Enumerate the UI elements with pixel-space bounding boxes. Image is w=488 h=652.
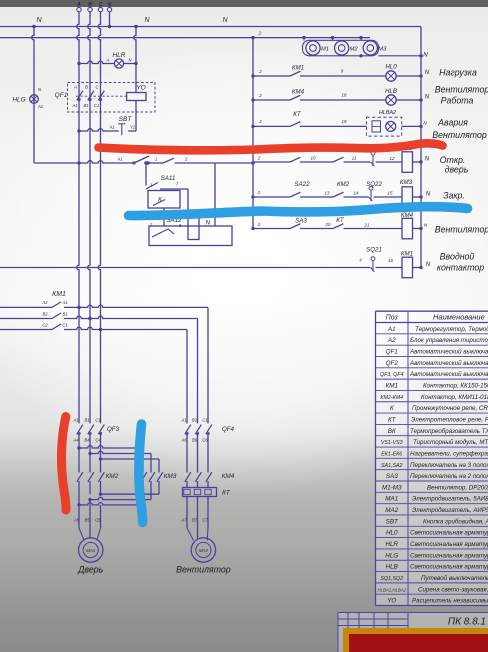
svg-text:A2: A2 — [41, 300, 48, 305]
svg-text:КМ1: КМ1 — [401, 251, 413, 258]
svg-text:C1: C1 — [95, 418, 100, 423]
svg-text:HLBA2: HLBA2 — [379, 110, 396, 116]
svg-text:SQ21: SQ21 — [366, 247, 382, 254]
svg-text:МА1: МА1 — [385, 496, 398, 503]
svg-text:Нагрузка: Нагрузка — [439, 68, 477, 78]
svg-text:МА2: МА2 — [199, 548, 209, 553]
svg-text:A: A — [106, 58, 110, 63]
svg-text:А1: А1 — [387, 326, 396, 333]
svg-text:N: N — [426, 191, 431, 198]
svg-text:C1: C1 — [202, 418, 207, 423]
svg-text:КМ4: КМ4 — [222, 473, 235, 480]
svg-text:Поз: Поз — [386, 315, 399, 322]
svg-text:A1: A1 — [180, 418, 186, 423]
svg-text:9: 9 — [341, 69, 344, 74]
svg-text:N: N — [425, 156, 430, 163]
svg-text:Переключатель на 3 положе: Переключатель на 3 положе — [410, 462, 488, 469]
svg-text:Путевой выключатель, ВП: Путевой выключатель, ВП — [421, 575, 488, 582]
svg-text:7: 7 — [176, 182, 179, 187]
svg-text:16: 16 — [388, 258, 393, 263]
svg-text:КМ1: КМ1 — [52, 291, 66, 298]
svg-text:A4: A4 — [72, 438, 79, 443]
svg-text:A7: A7 — [180, 518, 187, 523]
svg-text:18: 18 — [342, 93, 347, 98]
svg-text:15: 15 — [388, 191, 393, 196]
svg-text:N: N — [128, 58, 132, 63]
svg-text:N: N — [425, 69, 430, 76]
svg-text:контактор: контактор — [437, 263, 484, 273]
svg-text:Светосигнальная арматура зе: Светосигнальная арматура зе — [410, 552, 488, 559]
svg-text:Дверь: Дверь — [77, 565, 103, 575]
svg-text:МА2: МА2 — [385, 507, 398, 514]
svg-text:N: N — [423, 121, 427, 126]
svg-text:B6: B6 — [192, 438, 198, 443]
svg-text:КМ4: КМ4 — [401, 212, 414, 219]
svg-text:Блок управления тиристорами: Блок управления тиристорами — [410, 337, 488, 344]
svg-text:1: 1 — [150, 183, 152, 188]
svg-text:QF1: QF1 — [386, 349, 398, 356]
svg-text:ВК: ВК — [388, 428, 396, 435]
svg-text:Вентилятор: Вентилятор — [432, 130, 487, 140]
svg-text:SA1,SA2: SA1,SA2 — [381, 463, 403, 469]
svg-text:Расцепитель независимый: Расцепитель независимый — [412, 598, 488, 605]
svg-text:КМ2: КМ2 — [106, 473, 119, 480]
svg-text:КТ: КТ — [293, 111, 302, 118]
svg-text:HLB: HLB — [385, 88, 397, 95]
svg-text:КМ1: КМ1 — [386, 383, 398, 390]
svg-text:Переключатель на 2 положе: Переключатель на 2 положе — [410, 473, 488, 480]
svg-text:QF2: QF2 — [386, 360, 399, 367]
svg-text:2: 2 — [258, 31, 262, 36]
svg-text:A1: A1 — [37, 104, 43, 109]
svg-text:ПК 8.8.1: ПК 8.8.1 — [448, 617, 486, 628]
svg-text:HLB: HLB — [386, 564, 398, 571]
svg-text:Авария: Авария — [437, 118, 468, 128]
svg-text:SA3: SA3 — [295, 218, 307, 225]
svg-text:HLR: HLR — [112, 52, 125, 59]
svg-text:Вентилятор: Вентилятор — [435, 85, 488, 95]
svg-text:YO: YO — [387, 598, 396, 605]
svg-text:Работа: Работа — [441, 96, 474, 106]
svg-text:2: 2 — [258, 69, 262, 74]
svg-text:QF3, QF4: QF3, QF4 — [380, 372, 404, 378]
svg-text:C: C — [99, 2, 103, 8]
svg-text:19: 19 — [342, 119, 347, 124]
svg-text:C1: C1 — [62, 322, 67, 327]
svg-text:M1: M1 — [321, 47, 329, 53]
svg-text:HLG: HLG — [12, 97, 25, 104]
svg-text:B7: B7 — [192, 518, 198, 523]
svg-text:КМ3: КМ3 — [164, 473, 177, 480]
svg-text:Откр.: Откр. — [440, 155, 466, 165]
svg-text:Светосигнальная арматура же: Светосигнальная арматура же — [410, 530, 488, 537]
svg-text:N: N — [426, 261, 431, 268]
svg-text:10: 10 — [311, 156, 316, 161]
svg-text:SQ1,SQ2: SQ1,SQ2 — [380, 576, 403, 582]
svg-text:КТ: КТ — [222, 490, 231, 497]
svg-text:12: 12 — [390, 156, 395, 161]
svg-text:QF3: QF3 — [107, 426, 120, 433]
svg-text:Тиристорный модуль, МТТ: Тиристорный модуль, МТТ — [413, 439, 488, 446]
svg-text:VS1-VS3: VS1-VS3 — [381, 440, 403, 446]
svg-text:C: C — [95, 85, 99, 90]
svg-text:SA22: SA22 — [294, 181, 310, 188]
svg-text:N: N — [38, 87, 42, 92]
svg-text:B5: B5 — [84, 518, 90, 523]
svg-text:А2: А2 — [387, 337, 396, 344]
svg-text:C2: C2 — [42, 322, 48, 327]
svg-text:КТ: КТ — [336, 217, 345, 224]
svg-text:Автоматический выключатель, МЕ: Автоматический выключатель, МЕ — [409, 371, 488, 378]
svg-text:Сирена свето-звуковая, АС: Сирена свето-звуковая, АС — [418, 586, 488, 593]
svg-text:Вентилятор, DP200А: Вентилятор, DP200А — [427, 484, 488, 491]
svg-text:YO: YO — [136, 85, 145, 92]
svg-text:QF1: QF1 — [55, 92, 68, 99]
svg-text:Электродвигатель, АИР56А: Электродвигатель, АИР56А — [412, 507, 488, 514]
svg-text:Электротепловое реле, РТН: Электротепловое реле, РТН — [411, 416, 488, 423]
svg-text:20: 20 — [325, 222, 331, 227]
svg-text:Закр.: Закр. — [443, 191, 465, 201]
svg-text:2: 2 — [257, 222, 261, 227]
svg-text:B2: B2 — [42, 311, 48, 316]
svg-text:КМ1: КМ1 — [292, 65, 304, 72]
svg-text:Контактор, КМИ11-018-230: Контактор, КМИ11-018-230 — [421, 394, 488, 401]
svg-text:A5: A5 — [73, 518, 80, 523]
svg-text:Вводной: Вводной — [440, 252, 475, 262]
svg-text:B: B — [88, 2, 92, 8]
svg-text:Контактор, КК150-150-230: Контактор, КК150-150-230 — [423, 383, 488, 390]
svg-text:N: N — [108, 2, 112, 8]
svg-text:Нагреватели, суперфехраль: Нагреватели, суперфехраль — [410, 450, 488, 457]
svg-text:Автоматический выключатель, МЕ: Автоматический выключатель, МЕ — [409, 360, 488, 367]
svg-text:2: 2 — [257, 156, 261, 161]
svg-text:Наименование: Наименование — [433, 313, 485, 322]
svg-text:КТ: КТ — [388, 416, 397, 423]
svg-text:КМ2: КМ2 — [337, 181, 350, 188]
svg-text:A1: A1 — [61, 300, 67, 305]
svg-text:К: К — [390, 405, 394, 412]
svg-text:HL0: HL0 — [386, 530, 398, 537]
svg-text:Автоматический выключатель, S: Автоматический выключатель, S — [409, 349, 488, 356]
svg-text:Электродвигатель, 5АИ80В: Электродвигатель, 5АИ80В — [412, 496, 488, 503]
svg-text:Промежуточное реле, CR-М: Промежуточное реле, CR-М — [412, 405, 488, 412]
svg-text:N: N — [144, 17, 150, 24]
svg-text:7: 7 — [150, 223, 153, 228]
svg-text:N: N — [36, 17, 42, 24]
svg-text:Y1: Y1 — [130, 125, 135, 130]
svg-text:HL0: HL0 — [385, 64, 397, 71]
svg-text:A: A — [76, 2, 81, 8]
svg-text:C5: C5 — [95, 518, 101, 523]
svg-text:A6: A6 — [180, 438, 187, 443]
svg-text:A1: A1 — [72, 418, 78, 423]
svg-text:A1: A1 — [108, 125, 114, 130]
svg-text:B: B — [85, 85, 88, 90]
svg-text:B1: B1 — [84, 418, 89, 423]
svg-text:SBT: SBT — [386, 518, 399, 525]
svg-text:Вентилятор: Вентилятор — [435, 225, 488, 235]
svg-text:A1: A1 — [116, 157, 122, 162]
svg-text:Вентилятор: Вентилятор — [176, 565, 231, 575]
svg-text:A: A — [73, 85, 77, 90]
svg-text:КМ4: КМ4 — [292, 89, 305, 96]
svg-text:2: 2 — [184, 157, 188, 162]
svg-text:C6: C6 — [202, 438, 208, 443]
svg-text:дверь: дверь — [445, 165, 469, 175]
svg-text:C4: C4 — [95, 438, 101, 443]
svg-text:B1: B1 — [83, 103, 88, 108]
svg-text:SBT: SBT — [119, 116, 133, 123]
svg-text:4: 4 — [359, 258, 362, 263]
svg-text:SA3: SA3 — [386, 473, 398, 480]
svg-text:Терморегулятор, Термодат-10: Терморегулятор, Термодат-10 — [415, 326, 488, 333]
svg-text:M2: M2 — [350, 47, 359, 53]
svg-text:21: 21 — [364, 223, 370, 228]
svg-text:M3: M3 — [378, 47, 387, 53]
svg-text:QF4: QF4 — [222, 426, 235, 433]
svg-text:N: N — [206, 220, 211, 227]
svg-text:B1: B1 — [62, 311, 67, 316]
svg-text:C1: C1 — [94, 103, 99, 108]
svg-text:N: N — [423, 52, 428, 59]
svg-text:13: 13 — [325, 191, 330, 196]
svg-text:N: N — [425, 94, 430, 101]
svg-text:1: 1 — [155, 157, 157, 162]
svg-text:11: 11 — [352, 156, 357, 161]
svg-text:2: 2 — [258, 119, 262, 124]
svg-text:SQ22: SQ22 — [366, 181, 382, 188]
svg-text:14: 14 — [354, 191, 359, 196]
svg-text:Светосигнальная арматура кр: Светосигнальная арматура кр — [410, 541, 488, 548]
svg-text:Кнопка грибовидная, АЕА: Кнопка грибовидная, АЕА — [423, 518, 488, 525]
svg-text:КМ3: КМ3 — [400, 179, 413, 186]
svg-text:Светосигнальная арматура си: Светосигнальная арматура си — [410, 564, 488, 571]
svg-text:Термопреобразователь ТХА: Термопреобразователь ТХА — [410, 428, 488, 435]
svg-text:М1-М3: М1-М3 — [382, 484, 402, 491]
svg-text:SA11: SA11 — [161, 175, 176, 182]
svg-text:N: N — [424, 223, 428, 228]
svg-text:ЕК1-ЕК6: ЕК1-ЕК6 — [381, 451, 402, 457]
svg-text:HLBA1,HLBA2: HLBA1,HLBA2 — [378, 587, 407, 592]
svg-text:N: N — [222, 17, 228, 24]
svg-text:HLG: HLG — [385, 552, 398, 559]
svg-text:2: 2 — [258, 93, 262, 98]
svg-text:B1: B1 — [192, 418, 197, 423]
svg-text:B4: B4 — [84, 438, 90, 443]
svg-text:КМ2-КМ4: КМ2-КМ4 — [380, 395, 403, 401]
svg-text:МА1: МА1 — [86, 548, 96, 553]
svg-text:2: 2 — [257, 190, 261, 195]
svg-text:C7: C7 — [202, 518, 208, 523]
svg-text:HLR: HLR — [385, 541, 398, 548]
svg-text:A1: A1 — [71, 103, 77, 108]
